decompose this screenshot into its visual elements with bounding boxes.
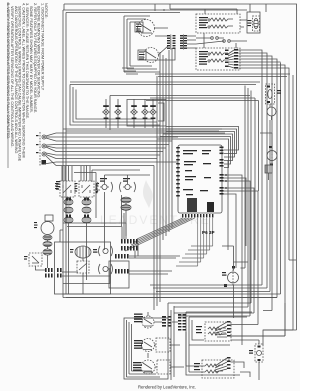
right nested corner wires down to bottom: [66, 285, 293, 345]
svg-text:Rendered by LeadVenture, Inc.: Rendered by LeadVenture, Inc.: [138, 385, 196, 390]
motor coil b: [43, 242, 52, 247]
bake label text: [199, 17, 208, 28]
wire loop 1: [124, 16, 150, 72]
wires mid to right: [129, 244, 180, 275]
indicator lamp E: [149, 99, 157, 128]
connector P4 pins right strip: [173, 35, 176, 49]
watermark logo: [100, 180, 211, 227]
motor coil a: [43, 235, 52, 240]
wires fuse: [270, 104, 272, 120]
convection motor label left: [70, 249, 74, 253]
wires board right pins going right/down: [224, 160, 259, 345]
thermal fuse dashed top right: [266, 84, 275, 104]
lamp bracket 2: [120, 182, 136, 192]
wires lock: [260, 133, 272, 180]
board right pin group 4: [220, 187, 224, 195]
resistor broil 2: [210, 59, 228, 62]
lock switch hatched box: [265, 165, 272, 173]
connector pins P1: [45, 268, 53, 278]
probe dashed box: [29, 253, 42, 266]
surface switch S2 (dashed circle): [144, 48, 159, 63]
terminal L1: [42, 135, 46, 139]
wire jumpers: [196, 33, 247, 48]
door motor circle: [228, 272, 239, 283]
terminal N: [42, 144, 46, 148]
board right pin group 3: [220, 174, 224, 182]
nested corner wires right mid: [146, 98, 259, 260]
convection motor: [75, 246, 91, 258]
board right pin group 1: [220, 147, 224, 155]
connector cluster top right: [162, 316, 172, 327]
indicator lamp A: [102, 99, 110, 128]
relay coil 1c: [64, 217, 73, 223]
thermal fuse bottom dashed: [255, 344, 263, 362]
element dashed box 2: [202, 360, 234, 378]
board left pins: [176, 147, 180, 197]
wire bus pair mid-top: [70, 82, 260, 85]
box inner wire loops: [127, 320, 161, 377]
latch switch 2 contacts right: [156, 338, 170, 352]
resistor broil 1: [210, 52, 228, 55]
wire loop returns: [124, 66, 160, 72]
wire top L1: [64, 4, 297, 330]
wires to element 2: [186, 332, 205, 372]
latch switch 1 label: [134, 314, 143, 323]
resistor bake 1: [210, 18, 233, 21]
wire loop corner left-mid: [63, 173, 126, 240]
wire inner box top: [110, 96, 250, 131]
wire top N: [155, 4, 266, 14]
wire bake to box: [240, 20, 247, 27]
notice text block (rotated): [6, 3, 48, 162]
page edge line: [7, 2, 9, 168]
indicator lamp D: [141, 99, 149, 128]
latch switch 3 contacts right: [157, 360, 170, 374]
broil label text: [199, 51, 208, 65]
latch switch 1 dashed circle: [142, 316, 154, 328]
ground lug: [42, 160, 47, 165]
latch switch 2 label: [134, 340, 143, 349]
switch S2 contacts: [145, 51, 157, 60]
wires door motor: [222, 246, 234, 318]
lamp label: [248, 20, 252, 26]
wire right bundle inner: [270, 75, 293, 330]
wire dots on board-right wires: [225, 174, 227, 189]
board bottom fan wires: [125, 218, 213, 266]
lock switch circle right: [267, 151, 277, 161]
mid box: [109, 261, 129, 288]
terminal L2: [42, 152, 46, 156]
resistor br2 group: [205, 364, 223, 373]
label box S1: [135, 22, 143, 32]
mid connector bars lower: [115, 254, 129, 274]
jumper terminals row: [211, 37, 231, 43]
oven light switch cluster mid: [97, 182, 113, 192]
relay coil 2b: [82, 207, 91, 213]
wires left lower: [36, 221, 111, 276]
mid connector rows: [121, 239, 138, 251]
mid lamp bracket lower 1: [99, 246, 113, 256]
wires mid cluster: [92, 170, 150, 250]
left relay DLB: [60, 181, 75, 197]
coils mid: [121, 197, 131, 203]
power terminal block dashed: [39, 132, 41, 166]
left motor box: [45, 215, 53, 221]
label box S2: [138, 50, 146, 60]
fuse circle below: [267, 107, 276, 116]
element terminals lower: [208, 53, 210, 62]
relay coil 1b: [64, 207, 73, 213]
wires S1/S2 to connectors: [154, 28, 175, 60]
board bottom pin row: [182, 214, 213, 218]
board right pin group 2: [220, 159, 224, 167]
terminal fan wires to top cluster: [225, 50, 229, 68]
central vertical bundle: [154, 48, 172, 310]
wires corner nest board top-right: [157, 127, 239, 168]
relay coil 2a: [82, 199, 91, 205]
fan wires from terminals: [44, 133, 56, 166]
bottom right connector pins: [178, 314, 186, 331]
bus band upper lines from frame: [63, 129, 222, 131]
wire nested corners upper-left: [122, 68, 138, 74]
resistor bake 2: [210, 25, 233, 28]
mid lamp bracket lower 2: [99, 264, 113, 274]
control board outline: [178, 145, 222, 213]
connector P4 pins left strip: [167, 35, 170, 49]
indicator lamp C: [130, 99, 138, 128]
resistor br1: [208, 327, 226, 335]
element terminals: [208, 19, 210, 28]
left relay 2: [79, 181, 94, 197]
board internal text: [183, 150, 211, 195]
bottom right wire loops: [186, 312, 252, 375]
vertical wires bottom middle: [168, 303, 174, 380]
wire to right bundle: [231, 303, 286, 336]
wire bus lower: [63, 63, 281, 295]
wire loops under top cluster: [155, 74, 290, 77]
latch switch 2 dashed circle: [142, 339, 155, 352]
wires convection: [60, 230, 83, 294]
connector pins P2: [57, 268, 62, 278]
terminal labels: [36, 135, 39, 153]
element dashed box 1: [205, 322, 231, 341]
board transformer block: [187, 198, 197, 212]
wires broil pins to right edge descending: [238, 50, 296, 336]
pins right lower group: [227, 357, 231, 369]
oven light box: [247, 12, 260, 33]
wires bottom right: [231, 340, 260, 380]
top-right bake element dashed box: [196, 14, 240, 33]
connector pins fan right of broil: [234, 49, 238, 69]
lamp inner box: [127, 100, 166, 127]
label between relays: [75, 183, 78, 192]
board relay block: [207, 202, 214, 212]
svg-text:P6 3P: P6 3P: [202, 230, 215, 235]
frame double border left/top/bottom: [63, 10, 277, 298]
convection box: [55, 242, 111, 294]
connector P5 pins: [180, 35, 187, 49]
wires bottom box to right: [148, 312, 184, 367]
top-right broil element dashed box: [196, 48, 240, 70]
oven light switch cluster mid pins: [96, 184, 98, 193]
indicator lamp B: [114, 99, 122, 128]
latch switch 3 dashed circle: [141, 360, 155, 374]
corner turns from board fan: [176, 246, 213, 266]
convection switch dashed: [77, 261, 89, 273]
relay bottom pins: [66, 198, 89, 218]
relay coil 2c: [82, 217, 91, 223]
wires relays vertical: [62, 166, 100, 295]
label P2 PL: [56, 181, 60, 190]
element pins right group: [227, 321, 231, 337]
lamp row nested boxes: [70, 85, 160, 126]
main horizontal bus band: [56, 133, 225, 166]
wires P5 to right cluster: [187, 36, 196, 48]
oven lamp dashed enclosure: [253, 16, 260, 31]
surface switch S1 (dashed circle): [138, 20, 155, 37]
motor coil c: [43, 249, 52, 255]
oven lamp: [254, 19, 258, 29]
switch S1 contacts: [140, 24, 152, 33]
bottom left switch box: [124, 318, 168, 379]
relay coil 1a: [64, 199, 73, 205]
latch switch 3 label: [133, 362, 142, 371]
left motor: [41, 222, 54, 235]
